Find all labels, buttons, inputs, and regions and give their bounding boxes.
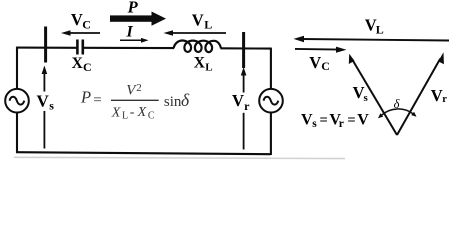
arrow Vr (node voltage) xyxy=(241,67,247,150)
svg-text:δ: δ xyxy=(181,90,190,110)
node bus bar left xyxy=(44,27,47,63)
svg-text:s: s xyxy=(49,99,54,113)
svg-text:δ: δ xyxy=(394,97,400,111)
svg-text:P: P xyxy=(127,0,139,16)
svg-text:=: = xyxy=(93,92,101,108)
svg-text:C: C xyxy=(321,59,330,73)
svg-text:L: L xyxy=(204,17,212,31)
wire left xyxy=(16,47,18,153)
formula P = V^2/(XL-XC) sin(delta) xyxy=(80,82,190,122)
svg-text:P: P xyxy=(80,87,91,106)
scan shadow under bottom wire xyxy=(14,157,345,158)
wire bottom xyxy=(16,152,271,154)
svg-text:V: V xyxy=(71,10,83,29)
svg-text:=: = xyxy=(347,113,355,129)
arrow P (thick power arrow) xyxy=(110,12,166,26)
inductor XL xyxy=(174,41,222,53)
phasor vector Vs xyxy=(349,54,397,135)
svg-text:V: V xyxy=(37,91,50,110)
svg-text:V: V xyxy=(192,11,204,30)
svg-text:r: r xyxy=(339,118,344,130)
svg-text:=: = xyxy=(320,113,328,129)
svg-text:V: V xyxy=(232,91,244,110)
capacitor XC plates xyxy=(77,40,82,55)
svg-text:C: C xyxy=(82,17,91,31)
arrow Vs (node voltage) xyxy=(42,66,48,149)
svg-text:V: V xyxy=(301,112,313,129)
svg-text:2: 2 xyxy=(136,82,142,94)
node bus bar right xyxy=(242,32,245,68)
angle delta arc with arrowheads xyxy=(378,109,417,118)
svg-text:C: C xyxy=(148,111,155,122)
phasor vector Vr xyxy=(397,52,444,135)
svg-text:r: r xyxy=(442,94,447,105)
svg-text:V: V xyxy=(309,53,321,72)
svg-text:V: V xyxy=(431,86,443,105)
svg-text:s: s xyxy=(364,92,369,104)
wire top xyxy=(17,48,271,49)
arrow VC (circuit, pointing left) xyxy=(61,30,100,36)
annotation Vs = Vr = V xyxy=(301,112,369,131)
phasor VC arrow (pointing right) xyxy=(295,47,347,53)
source Vr (AC) xyxy=(259,89,283,113)
arrow I (current) xyxy=(120,38,149,43)
source Vs (AC) xyxy=(5,89,29,113)
wire right xyxy=(270,48,272,155)
svg-text:I: I xyxy=(126,24,134,41)
svg-text:V: V xyxy=(357,112,369,129)
svg-text:s: s xyxy=(312,118,317,130)
svg-text:C: C xyxy=(83,60,92,74)
phasor VL arrow (pointing left) xyxy=(294,36,450,42)
formula fraction bar xyxy=(111,99,159,101)
svg-text:-: - xyxy=(130,105,135,120)
svg-text:r: r xyxy=(244,99,250,113)
svg-text:X: X xyxy=(194,55,206,72)
svg-text:X: X xyxy=(72,55,84,72)
svg-text:sin: sin xyxy=(164,94,182,110)
svg-text:X: X xyxy=(111,105,121,120)
svg-text:L: L xyxy=(376,23,384,37)
arrow VL (circuit, pointing left) xyxy=(164,30,227,36)
svg-text:X: X xyxy=(137,105,147,120)
svg-text:L: L xyxy=(122,111,128,122)
svg-text:L: L xyxy=(205,61,212,73)
